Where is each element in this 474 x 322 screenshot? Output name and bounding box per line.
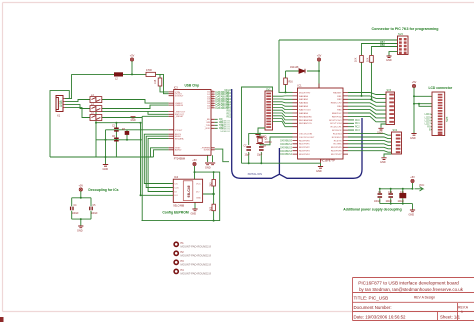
wire cluster rail: [96, 122, 141, 124]
svg-text:LCD7: LCD7: [425, 124, 432, 126]
svg-text:TITLE: PIC_USB: TITLE: PIC_USB: [354, 296, 389, 301]
svg-text:+5V: +5V: [410, 176, 415, 179]
net labels block left of sv1: [224, 90, 231, 118]
ic IC1 right pin stubs: [343, 93, 348, 155]
title block row line 1: [353, 292, 474, 294]
svg-text:100nF: 100nF: [72, 213, 79, 215]
ic IC3 right pin stubs: [211, 92, 215, 150]
blue group brace around xtal/osc and port area: [232, 89, 362, 178]
capacitor C7: [246, 147, 251, 150]
wire osc1: [249, 134, 293, 145]
svg-text:RC4/SDI: RC4/SDI: [333, 134, 342, 136]
header SV4 pins: [396, 134, 401, 153]
header SV4 body: [392, 132, 402, 154]
svg-text:USB: USB: [59, 100, 63, 107]
wire addl decoupling bottom rail: [380, 198, 413, 209]
svg-text:RC5/SDO: RC5/SDO: [332, 137, 342, 139]
title block row line 3: [353, 311, 474, 313]
svg-text:1N4148: 1N4148: [290, 66, 299, 69]
svg-text:RD5/PSP5: RD5/PSP5: [331, 147, 342, 149]
wires pic to SV3 bundle: [348, 93, 386, 122]
header SV2 pins: [399, 38, 407, 54]
svg-text:RE1/AN6/WR: RE1/AN6/WR: [299, 119, 313, 122]
header SV1 pins: [266, 93, 271, 128]
svg-text:RE2: RE2: [227, 116, 232, 118]
capacitor C9: [378, 194, 383, 197]
wire dminus from X1 to filter: [65, 105, 90, 109]
svg-text:MCLR/THV: MCLR/THV: [299, 92, 311, 94]
svg-text:R16: R16: [289, 82, 294, 84]
svg-text:EEDATA: EEDATA: [175, 137, 184, 140]
svg-text:10K: 10K: [355, 57, 358, 62]
svg-text:RE0/AN5/RD: RE0/AN5/RD: [299, 115, 312, 118]
svg-text:PIC16F877P: PIC16F877P: [320, 159, 335, 163]
svg-text:Decoupling for ICs: Decoupling for ICs: [88, 188, 118, 192]
ic IC1 pin names left: [299, 92, 315, 156]
resistor R16 vertical: [284, 78, 288, 85]
svg-text:93LC46: 93LC46: [187, 185, 191, 197]
svg-text:Config EEPROM: Config EEPROM: [162, 210, 189, 214]
wire resistor R1 to R2: [156, 74, 161, 78]
wire eeprom gnd: [194, 202, 196, 208]
capacitor C10b: [388, 194, 393, 197]
svg-text:RD0/PSP0: RD0/PSP0: [299, 140, 310, 142]
svg-text:RC1/T1OSI: RC1/T1OSI: [330, 123, 342, 125]
svg-text:GND: GND: [103, 168, 109, 171]
svg-text:18: 18: [212, 107, 214, 109]
svg-text:_RSTOUT: _RSTOUT: [174, 111, 186, 113]
svg-text:MOUNT-PAD-ROUND2.8: MOUNT-PAD-ROUND2.8: [181, 244, 212, 248]
header SV2 programming: [398, 36, 409, 55]
svg-text:USBDM: USBDM: [175, 105, 183, 107]
svg-text:+5V: +5V: [412, 81, 417, 84]
svg-text:DATABUS3: DATABUS3: [280, 150, 293, 153]
svg-text:RA5: RA5: [227, 107, 232, 110]
svg-text:WR: WR: [206, 122, 210, 124]
svg-text:RC7/RX: RC7/RX: [333, 144, 342, 146]
wire eeprom di feed: [141, 123, 174, 196]
svg-text:1K5: 1K5: [154, 79, 157, 84]
svg-text:MOUNT-PAD-ROUND2.8: MOUNT-PAD-ROUND2.8: [181, 262, 212, 266]
wire chip bottom gnd drops: [208, 155, 213, 162]
ic IC3 left pin stubs: [169, 92, 174, 150]
svg-text:REV:A: REV:A: [458, 306, 469, 310]
filter L5: [90, 115, 102, 121]
svg-text:DATABUS2: DATABUS2: [280, 146, 293, 149]
wire vcc arrow: [415, 187, 424, 191]
gnd symbol eeprom: [192, 209, 197, 211]
svg-text:GND: GND: [205, 167, 211, 170]
wire lcd power: [414, 88, 432, 133]
svg-text:VCC: VCC: [196, 183, 201, 185]
svg-text:15pF: 15pF: [245, 155, 251, 157]
wire 3v3out: [96, 111, 169, 157]
svg-text:RC6/TX: RC6/TX: [334, 140, 342, 142]
svg-text:RE1: RE1: [227, 113, 232, 115]
svg-text:2K2: 2K2: [210, 206, 212, 211]
svg-text:FT245BM: FT245BM: [174, 157, 185, 161]
resistor R15: [370, 56, 374, 63]
gnd wire SV3: [381, 124, 386, 128]
junction dots addl: [379, 188, 414, 205]
junction dots mclr: [285, 70, 321, 93]
mount hole H1: [174, 242, 178, 246]
resistor R1: [146, 72, 156, 76]
wires rd wr txe rxf: [215, 119, 218, 128]
wire eecs feed: [144, 134, 173, 183]
wire 5V rail through ferrite to resistor: [123, 73, 146, 75]
svg-text:GND: GND: [77, 229, 83, 232]
gnd wire SV4: [384, 154, 392, 157]
wire eedata feed: [148, 138, 173, 191]
svg-text:RB7/PGD: RB7/PGD: [332, 116, 342, 118]
varistor R3: [125, 131, 130, 135]
svg-text:X1: X1: [57, 114, 61, 118]
svg-text:RC2: RC2: [355, 127, 360, 129]
svg-text:RA2/AN2: RA2/AN2: [299, 102, 309, 105]
ic IC3 pin numbers right: [212, 91, 214, 109]
vcc symbol pic: [317, 58, 320, 61]
resistor R12 pullup: [212, 179, 215, 186]
capacitor C11b electrolytic: [400, 193, 406, 197]
capacitor C2: [114, 128, 119, 131]
ic IC3 pin names right: [200, 92, 211, 152]
svg-text:+5V: +5V: [79, 185, 84, 188]
svg-text:SV2: SV2: [398, 32, 403, 36]
svg-text:3V3OUT: 3V3OUT: [175, 96, 184, 98]
ic IC4 93LC46B body: [173, 179, 202, 202]
svg-text:2K2: 2K2: [210, 182, 212, 187]
svg-text:RA3: RA3: [227, 101, 232, 104]
net labels faint block: [220, 119, 230, 133]
svg-text:LCD5: LCD5: [425, 117, 432, 119]
svg-text:GND: GND: [196, 197, 201, 199]
wire cap gnd drop: [105, 130, 107, 157]
svg-text:RA5/AN4: RA5/AN4: [299, 112, 309, 115]
svg-text:Sheet: 1/1: Sheet: 1/1: [440, 315, 461, 320]
gnd symbol usb rail: [103, 165, 108, 167]
wire vdd stem: [318, 61, 320, 88]
header SV3 body: [386, 92, 395, 125]
wire gnd drop: [105, 157, 107, 164]
svg-text:RC3: RC3: [355, 130, 360, 132]
diode D1 1N4148: [299, 69, 305, 74]
filter L3: [90, 97, 102, 103]
title block sheet box divider: [437, 312, 439, 321]
vcc symbol decoupling: [79, 188, 82, 191]
svg-text:CLK: CLK: [175, 187, 180, 189]
svg-text:Document Number:: Document Number:: [354, 305, 392, 310]
net labels lcd: [425, 114, 432, 131]
svg-text:GND: GND: [409, 214, 415, 217]
svg-text:1: 1: [461, 310, 463, 314]
svg-text:RA2: RA2: [227, 98, 232, 101]
svg-text:DATABUS4: DATABUS4: [280, 153, 293, 156]
svg-text:OSC2/CLKOUT: OSC2/CLKOUT: [299, 137, 315, 139]
title block outer box: [353, 278, 474, 321]
resistor R2 vertical: [158, 78, 162, 86]
svg-text:RB6: RB6: [380, 44, 385, 47]
svg-text:DO: DO: [175, 195, 179, 197]
svg-text:GND: GND: [380, 161, 386, 164]
svg-text:RD4/PSP4: RD4/PSP4: [299, 154, 310, 156]
svg-text:Connector to PIC 7K3 for progr: Connector to PIC 7K3 for programming: [372, 27, 439, 31]
svg-text:SI/WU: SI/WU: [204, 150, 211, 152]
wire dminus to chip: [102, 105, 169, 108]
svg-text:SV3: SV3: [387, 89, 392, 92]
vcc symbol eeprom: [193, 162, 196, 165]
resistor R14: [360, 56, 364, 63]
vcc symbol lcd: [412, 84, 415, 87]
svg-text:Date: 19/03/2006 16:56:52: Date: 19/03/2006 16:56:52: [354, 315, 407, 320]
svg-text:MOUNT-PAD-ROUND2.8: MOUNT-PAD-ROUND2.8: [181, 253, 212, 257]
svg-text:GND: GND: [377, 132, 383, 135]
svg-text:by Ian Stedman, Ian@stedmanhou: by Ian Stedman, Ian@stedmanhouse.freeser…: [359, 287, 464, 292]
capacitor C6: [114, 138, 119, 140]
svg-text:RB0/INT: RB0/INT: [333, 92, 342, 94]
header SV3 pins: [389, 94, 394, 123]
wire R15 bottom to bundle: [371, 62, 373, 99]
svg-text:MCLR: MCLR: [224, 90, 231, 92]
header LCD pins: [438, 94, 443, 135]
svg-text:VCC: VCC: [419, 184, 424, 187]
svg-text:SV4: SV4: [393, 129, 398, 132]
net labels databus on IC3: [216, 90, 230, 110]
svg-text:DO: DO: [196, 191, 200, 193]
svg-text:SV1: SV1: [266, 88, 271, 91]
svg-text:RC0: RC0: [355, 120, 360, 122]
svg-text:+5V: +5V: [192, 159, 197, 162]
svg-text:IC1: IC1: [298, 84, 303, 88]
ic IC1 PIC16F877 body: [298, 88, 344, 159]
wire PGD: [362, 44, 398, 56]
vcc symbol addl: [411, 179, 414, 182]
wire xtout spare: [148, 111, 169, 114]
wire vcc stem addl: [412, 183, 414, 189]
gnd symbol SV4: [381, 158, 386, 160]
svg-text:RD6/PSP6: RD6/PSP6: [331, 151, 342, 153]
wire caps to gnd rail: [242, 152, 321, 163]
wire mclr vertical: [278, 40, 280, 92]
gnd symbol SV3: [378, 128, 383, 130]
capacitor C4: [71, 207, 73, 211]
ic IC1 pin names right: [329, 92, 342, 156]
svg-text:RD7/PSP7: RD7/PSP7: [331, 154, 342, 156]
svg-text:CS: CS: [175, 183, 179, 185]
junction dots front end: [95, 73, 142, 158]
wire vcc chip pin2: [160, 74, 169, 93]
wire vbus up to 5V rail: [65, 74, 114, 98]
ic IC4 inner body: [183, 181, 193, 201]
svg-text:RC1: RC1: [355, 123, 360, 125]
gnd symbol sv1: [255, 135, 260, 137]
wire MCLR to programming header: [279, 40, 398, 99]
filter L4: [90, 106, 102, 112]
junction dots crystal: [248, 133, 263, 165]
svg-text:LCD6: LCD6: [425, 120, 432, 122]
svg-text:15pF: 15pF: [257, 155, 263, 157]
svg-text:100nF: 100nF: [374, 201, 381, 203]
svg-text:93LC46B: 93LC46B: [173, 204, 184, 208]
wire pic gnd drop: [320, 163, 322, 166]
svg-text:RA4/TOCKI: RA4/TOCKI: [299, 109, 311, 112]
gnd symbol lcd: [411, 134, 416, 136]
svg-text:USB Chip: USB Chip: [185, 83, 200, 87]
svg-text:C10: C10: [388, 192, 393, 194]
header LCD body: [432, 92, 445, 136]
wire shield frame loop: [50, 91, 69, 157]
svg-text:GND: GND: [316, 170, 322, 173]
ferrite bead L2: [114, 72, 123, 76]
svg-text:DATABUS5: DATABUS5: [220, 130, 230, 133]
wires lcd data: [431, 114, 432, 129]
svg-text:XTOUT: XTOUT: [175, 130, 183, 132]
header SV1 body: [265, 91, 273, 130]
svg-text:GND: GND: [191, 213, 197, 216]
wire R14 bottom to bundle: [361, 62, 363, 96]
svg-text:_RD: _RD: [205, 119, 211, 121]
svg-text:LCD4: LCD4: [425, 114, 432, 116]
wire vcc eeprom rail: [142, 166, 220, 221]
svg-text:RB3/CCP2: RB3/CCP2: [331, 103, 342, 105]
svg-text:100uF: 100uF: [398, 201, 405, 203]
ic IC3 pin names left: [174, 92, 186, 152]
svg-text:+5V: +5V: [130, 55, 135, 58]
wire ground rail usb area: [50, 156, 154, 158]
wire dplus to chip: [102, 100, 169, 104]
gnd symbol under pic: [318, 167, 323, 169]
svg-text:XRTAL/OS: XRTAL/OS: [248, 172, 263, 176]
wire pin4 to filter: [65, 108, 90, 118]
svg-text:_TXE: _TXE: [204, 125, 211, 127]
svg-text:RA0/AN0: RA0/AN0: [299, 95, 309, 98]
wire R2 to chip pin: [160, 86, 169, 92]
svg-text:RA1: RA1: [227, 95, 232, 98]
svg-text:RC2/CCP1: RC2/CCP1: [331, 127, 343, 129]
mount hole H3: [174, 260, 178, 264]
mount hole H2: [174, 251, 178, 255]
vcc symbol usb front: [130, 58, 133, 61]
wires SV1 to PIC: [273, 96, 293, 127]
svg-text:MOUNT-PAD-ROUND2.8: MOUNT-PAD-ROUND2.8: [181, 271, 212, 275]
svg-text:100nF: 100nF: [386, 201, 393, 203]
wire sv1 loop: [242, 87, 273, 163]
svg-text:20MHz: 20MHz: [265, 142, 273, 144]
title block rev box divider: [457, 303, 459, 321]
wire cluster caps stubs: [115, 123, 117, 157]
svg-text:LCD connector: LCD connector: [429, 86, 453, 90]
gnd symbol decoupling: [78, 226, 83, 228]
svg-text:GND: GND: [410, 137, 416, 140]
wire vcc stem: [131, 61, 133, 74]
svg-text:RD1/PSP1: RD1/PSP1: [299, 144, 310, 146]
wire cluster A: [106, 129, 169, 131]
svg-text:GND: GND: [386, 59, 392, 62]
svg-text:RE0: RE0: [227, 111, 232, 113]
capacitor C8: [259, 147, 264, 150]
svg-text:470R: 470R: [146, 69, 152, 72]
wire mclr to pic: [279, 91, 293, 93]
wire dplus from X1 to filter: [65, 100, 90, 102]
svg-text:GND: GND: [131, 120, 136, 122]
ic IC4 pin names: [175, 183, 202, 199]
svg-text:SV5: SV5: [445, 116, 449, 122]
wire PGC: [372, 47, 398, 56]
ic IC1 top bottom stubs: [319, 84, 321, 164]
wire eesk feed: [146, 136, 173, 187]
junction dots eeprom: [140, 171, 215, 222]
svg-text:Additional power supply decoup: Additional power supply decoupling: [343, 208, 401, 212]
gnd symbol addl: [410, 210, 415, 212]
net labels databus pic: [280, 140, 293, 157]
svg-text:100nF: 100nF: [91, 213, 98, 215]
svg-text:OSC1/CLKIN: OSC1/CLKIN: [299, 134, 312, 136]
svg-text:DATABUS0: DATABUS0: [280, 140, 293, 143]
svg-text:_RESET: _RESET: [174, 116, 184, 118]
ic IC1 left pin stubs: [293, 92, 298, 154]
wire r16 stubs: [285, 71, 287, 92]
capacitor C5: [90, 207, 92, 211]
svg-text:RA0: RA0: [227, 92, 232, 95]
wire diode rail: [286, 70, 320, 72]
junction dots prog wires: [361, 95, 373, 100]
resistor R13 pullup: [212, 204, 215, 211]
mount hole H4: [174, 269, 178, 273]
wire filter3 to reset: [102, 116, 169, 220]
ic IC3 FT245BM body: [174, 90, 211, 156]
ground below SV2: [389, 52, 398, 56]
crystal Q1: [256, 137, 263, 144]
junction dots decoupling: [80, 197, 82, 220]
net labels rc: [355, 120, 360, 132]
svg-text:IC4: IC4: [174, 175, 179, 179]
gnd symbols under IC3: [205, 163, 215, 165]
wires pic to SV4 bundle: [348, 134, 392, 153]
wire varistor stubs: [126, 130, 128, 140]
svg-text:IC3: IC3: [174, 85, 179, 89]
wire test agnd: [151, 148, 169, 157]
svg-text:RD2/PSP2: RD2/PSP2: [299, 147, 310, 149]
frame corner mark: [0, 317, 4, 322]
wires rc stubs: [348, 120, 354, 130]
wire osc2: [260, 137, 293, 145]
usb connector pins: [63, 99, 65, 108]
wire sv1 bottom gnd: [258, 128, 265, 134]
svg-text:DATABUS1: DATABUS1: [280, 143, 293, 146]
gnd symbol small above cluster: [131, 117, 136, 119]
usb connector X1: [56, 96, 63, 112]
title block row line 2: [353, 301, 474, 303]
wire pullup chain: [203, 172, 214, 221]
svg-text:10K: 10K: [367, 57, 370, 62]
wire pwren: [215, 149, 229, 162]
gnd symbol SV2: [387, 56, 392, 58]
svg-text:_RXF: _RXF: [203, 128, 210, 130]
svg-text:REV A Design: REV A Design: [414, 296, 435, 300]
svg-text:RD3/PSP3: RD3/PSP3: [299, 151, 310, 153]
svg-text:RA4: RA4: [227, 104, 232, 107]
svg-text:RB6/PGC: RB6/PGC: [332, 113, 342, 115]
junction dots lcd: [413, 95, 420, 104]
svg-text:RA3/AN3: RA3/AN3: [299, 105, 309, 108]
wire decoupling loop: [72, 191, 91, 225]
svg-text:AGND: AGND: [175, 149, 182, 152]
svg-text:RA1/AN1: RA1/AN1: [299, 98, 309, 101]
wire cluster B: [96, 139, 142, 141]
svg-text:PIC16F877 to USB interface dev: PIC16F877 to USB interface development b…: [358, 281, 459, 286]
svg-text:+5V: +5V: [317, 55, 322, 58]
svg-text:RE2/AN7/CS: RE2/AN7/CS: [299, 122, 312, 125]
